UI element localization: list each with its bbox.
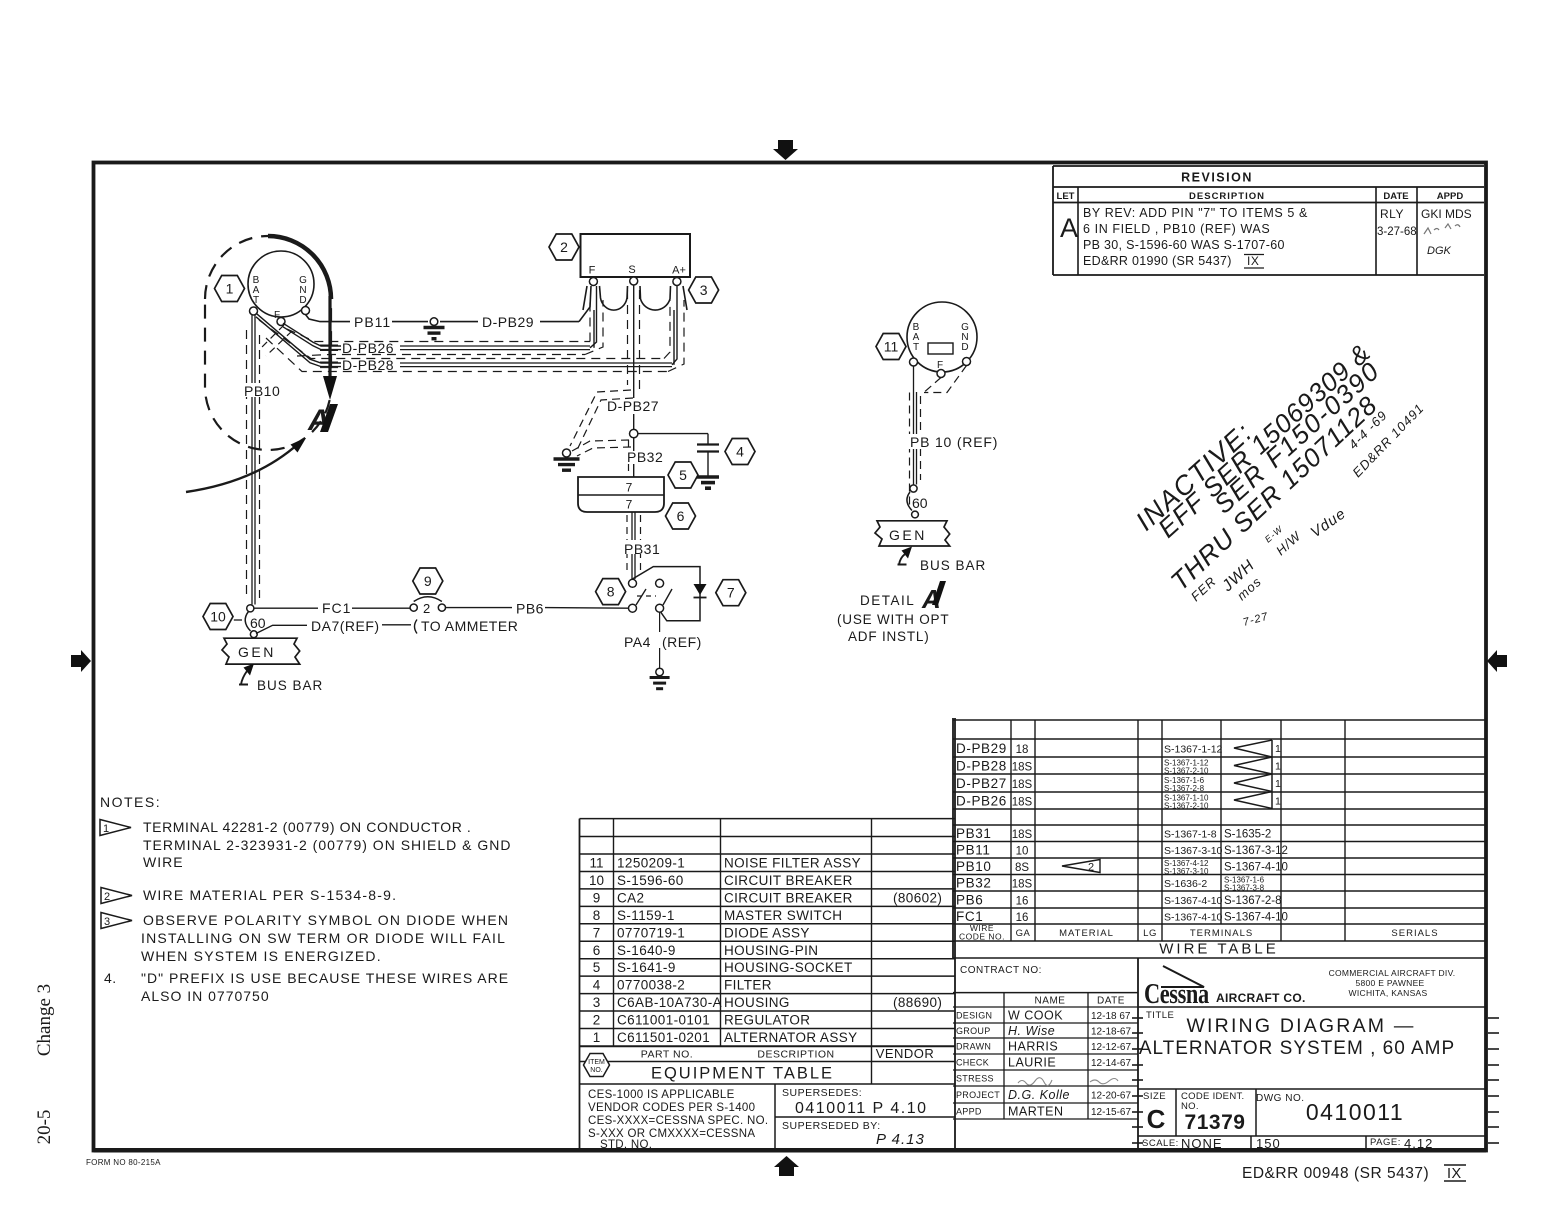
svg-text:4: 4 [736, 444, 744, 460]
svg-text:W COOK: W COOK [1008, 1009, 1063, 1023]
svg-text:HOUSING-SOCKET: HOUSING-SOCKET [724, 960, 853, 975]
svg-text:Cessna: Cessna [1144, 979, 1209, 1010]
svg-text:WIRE MATERIAL PER S-1534-8-9.: WIRE MATERIAL PER S-1534-8-9. [143, 887, 397, 903]
svg-text:12-15-67: 12-15-67 [1091, 1107, 1131, 1118]
svg-text:1: 1 [226, 281, 234, 297]
svg-text:7: 7 [593, 925, 601, 940]
svg-text:T: T [253, 295, 259, 306]
svg-text:VENDOR CODES PER S-1400: VENDOR CODES PER S-1400 [588, 1102, 755, 1114]
svg-text:ED&RR 01990 (SR 5437): ED&RR 01990 (SR 5437) [1083, 254, 1232, 268]
svg-text:MATERIAL: MATERIAL [1059, 928, 1114, 939]
svg-text:16: 16 [1016, 896, 1029, 908]
svg-text:S-1636-2: S-1636-2 [1164, 878, 1207, 890]
svg-text:60: 60 [912, 495, 928, 511]
svg-text:OBSERVE POLARITY SYMBOL ON DIO: OBSERVE POLARITY SYMBOL ON DIODE WHEN [143, 912, 509, 928]
svg-text:S-1641-9: S-1641-9 [617, 960, 676, 975]
svg-text:9: 9 [593, 890, 601, 905]
svg-text:FORM NO 80-215A: FORM NO 80-215A [86, 1158, 161, 1167]
svg-text:BUS BAR: BUS BAR [920, 558, 986, 573]
svg-text:NO.: NO. [590, 1067, 603, 1074]
svg-text:PB6: PB6 [956, 893, 983, 908]
svg-text:150: 150 [1256, 1136, 1281, 1151]
svg-text:S-1640-9: S-1640-9 [617, 943, 676, 958]
svg-text:PAGE:: PAGE: [1370, 1137, 1401, 1148]
svg-text:2: 2 [1088, 862, 1094, 874]
svg-text:S-1367-1-8: S-1367-1-8 [1164, 829, 1217, 841]
svg-text:PB32: PB32 [956, 876, 991, 891]
svg-text:S-1367-3-10: S-1367-3-10 [1164, 845, 1223, 857]
svg-text:1: 1 [103, 823, 109, 835]
svg-text:FC1: FC1 [956, 909, 983, 924]
svg-text:10: 10 [589, 873, 604, 888]
svg-text:GKI MDS: GKI MDS [1421, 207, 1472, 221]
svg-text:7: 7 [626, 498, 633, 512]
svg-text:DRAWN: DRAWN [956, 1042, 991, 1052]
svg-text:7: 7 [626, 481, 633, 495]
svg-text:1: 1 [1275, 743, 1281, 755]
svg-text:8: 8 [593, 908, 601, 923]
svg-text:0770719-1: 0770719-1 [617, 925, 685, 940]
svg-text:D: D [299, 295, 306, 306]
svg-text:0770038-2: 0770038-2 [617, 978, 685, 993]
svg-text:C611501-0201: C611501-0201 [617, 1030, 710, 1045]
svg-text:ADF INSTL): ADF INSTL) [848, 629, 930, 644]
svg-text:8S: 8S [1015, 862, 1029, 874]
svg-text:1: 1 [1275, 796, 1281, 808]
svg-text:EQUIPMENT TABLE: EQUIPMENT TABLE [651, 1065, 834, 1083]
svg-text:S-1367-3-8: S-1367-3-8 [1224, 884, 1265, 893]
svg-text:3-27-68: 3-27-68 [1377, 226, 1417, 238]
svg-text:CIRCUIT BREAKER: CIRCUIT BREAKER [724, 890, 853, 905]
svg-text:9: 9 [424, 573, 432, 589]
svg-text:SERIALS: SERIALS [1391, 928, 1438, 939]
svg-text:AIRCRAFT CO.: AIRCRAFT CO. [1216, 991, 1306, 1005]
svg-text:S-1367-2-8: S-1367-2-8 [1224, 895, 1282, 907]
svg-text:(80602): (80602) [893, 890, 942, 905]
svg-text:16: 16 [1016, 912, 1029, 924]
svg-text:11: 11 [589, 856, 603, 871]
svg-text:PB 30, S-1596-60 WAS S-1707: PB 30, S-1596-60 WAS S-1707-60 [1083, 238, 1285, 252]
svg-text:HOUSING-PIN: HOUSING-PIN [724, 943, 818, 958]
svg-text:DETAIL: DETAIL [860, 593, 915, 608]
svg-text:HOUSING: HOUSING [724, 995, 790, 1010]
svg-text:CA2: CA2 [617, 890, 644, 905]
svg-text:C: C [1147, 1104, 1166, 1134]
svg-text:WIRE TABLE: WIRE TABLE [1159, 941, 1278, 958]
svg-text:PA4: PA4 [624, 634, 651, 650]
svg-text:1: 1 [593, 1030, 601, 1045]
svg-text:ALSO IN 0770750: ALSO IN 0770750 [141, 988, 270, 1004]
svg-text:S-1159-1: S-1159-1 [617, 908, 675, 923]
svg-text:6: 6 [593, 943, 601, 958]
svg-text:18S: 18S [1012, 762, 1033, 774]
svg-text:4.: 4. [104, 970, 117, 986]
svg-text:REVISION: REVISION [1181, 171, 1253, 185]
svg-text:D-PB27: D-PB27 [956, 776, 1007, 791]
svg-text:10: 10 [210, 609, 226, 625]
svg-text:S-1367-2-8: S-1367-2-8 [1164, 784, 1205, 793]
svg-text:WHEN SYSTEM IS ENERGIZED.: WHEN SYSTEM IS ENERGIZED. [141, 948, 382, 964]
svg-text:PB11: PB11 [956, 843, 990, 858]
svg-text:DESCRIPTION: DESCRIPTION [757, 1049, 834, 1061]
svg-text:S-1367-3-12: S-1367-3-12 [1224, 845, 1288, 857]
svg-text:S-1367-2-10: S-1367-2-10 [1164, 802, 1209, 811]
svg-text:GA: GA [1016, 928, 1031, 939]
svg-text:ALTERNATOR SYSTEM , 60 AMP: ALTERNATOR SYSTEM , 60 AMP [1139, 1038, 1455, 1059]
svg-text:LET: LET [1057, 191, 1075, 202]
svg-text:TERMINAL 42281-2 (00779) ON CO: TERMINAL 42281-2 (00779) ON CONDUCTOR . [143, 819, 471, 835]
svg-text:P 4.13: P 4.13 [876, 1131, 925, 1148]
svg-text:60: 60 [250, 615, 266, 631]
svg-text:TITLE: TITLE [1146, 1010, 1174, 1021]
svg-text:(USE WITH OPT: (USE WITH OPT [837, 612, 949, 627]
svg-text:0410011: 0410011 [1306, 1099, 1404, 1125]
svg-text:DWG NO.: DWG NO. [1256, 1093, 1305, 1104]
svg-text:D-PB27: D-PB27 [607, 398, 659, 414]
svg-text:18S: 18S [1012, 829, 1033, 841]
svg-text:SIZE: SIZE [1143, 1091, 1166, 1102]
svg-text:BY REV: ADD PIN "7" TO ITEMS 5: BY REV: ADD PIN "7" TO ITEMS 5 & [1083, 206, 1308, 220]
svg-text:MARTEN: MARTEN [1008, 1105, 1064, 1119]
svg-text:DESIGN: DESIGN [956, 1011, 992, 1021]
svg-text:BUS BAR: BUS BAR [257, 678, 323, 693]
svg-text:DA7(REF): DA7(REF) [311, 618, 380, 634]
svg-text:WICHITA, KANSAS: WICHITA, KANSAS [1349, 988, 1428, 998]
svg-text:18S: 18S [1012, 797, 1033, 809]
svg-text:PROJECT: PROJECT [956, 1090, 1000, 1100]
svg-text:5: 5 [679, 467, 687, 483]
svg-text:D.G. Kolle: D.G. Kolle [1008, 1088, 1070, 1102]
svg-text:PB10: PB10 [244, 383, 280, 399]
svg-text:CES-XXXX=CESSNA SPEC. NO.: CES-XXXX=CESSNA SPEC. NO. [588, 1115, 768, 1127]
svg-text:T: T [913, 342, 919, 353]
svg-text:PB32: PB32 [627, 449, 663, 465]
svg-text:REGULATOR: REGULATOR [724, 1013, 810, 1028]
svg-text:DATE: DATE [1097, 996, 1125, 1007]
svg-text:11: 11 [884, 339, 899, 355]
svg-text:TO AMMETER: TO AMMETER [421, 618, 518, 634]
svg-text:RLY: RLY [1380, 207, 1404, 221]
svg-text:(88690): (88690) [893, 995, 942, 1010]
svg-text:INSTALLING ON SW TERM OR DIODE: INSTALLING ON SW TERM OR DIODE WILL FAIL [141, 930, 506, 946]
svg-text:PB11: PB11 [354, 314, 391, 330]
svg-text:5: 5 [593, 960, 601, 975]
svg-text:WIRING DIAGRAM —: WIRING DIAGRAM — [1186, 1015, 1415, 1037]
svg-text:SCALE:: SCALE: [1142, 1138, 1179, 1149]
svg-text:C611001-0101: C611001-0101 [617, 1013, 710, 1028]
svg-text:DESCRIPTION: DESCRIPTION [1189, 191, 1265, 202]
svg-text:12-18-67: 12-18-67 [1091, 1027, 1131, 1038]
svg-text:S-1367-3-10: S-1367-3-10 [1164, 867, 1209, 876]
svg-text:2: 2 [423, 601, 430, 616]
svg-text:S-1367-4-10: S-1367-4-10 [1164, 895, 1223, 907]
svg-text:10: 10 [1016, 846, 1029, 858]
svg-text:1250209-1: 1250209-1 [617, 856, 685, 871]
svg-text:1: 1 [1275, 761, 1281, 773]
svg-text:2: 2 [560, 239, 568, 255]
svg-text:4: 4 [593, 978, 601, 993]
svg-text:3: 3 [593, 995, 601, 1010]
svg-text:8: 8 [607, 584, 615, 600]
svg-text:APPD: APPD [956, 1107, 982, 1117]
svg-text:A+: A+ [672, 265, 686, 277]
svg-text:CES-1000 IS APPLICABLE: CES-1000 IS APPLICABLE [588, 1089, 735, 1101]
svg-text:D-PB29: D-PB29 [482, 314, 534, 330]
svg-text:7: 7 [727, 585, 735, 601]
svg-text:S-1367-4-10: S-1367-4-10 [1224, 862, 1288, 874]
svg-text:STD. NO.: STD. NO. [600, 1139, 652, 1151]
svg-text:D-PB28: D-PB28 [342, 357, 394, 373]
svg-text:ALTERNATOR ASSY: ALTERNATOR ASSY [724, 1030, 858, 1045]
svg-text:A: A [1060, 213, 1078, 243]
svg-text:2: 2 [104, 891, 110, 903]
svg-text:MASTER SWITCH: MASTER SWITCH [724, 908, 842, 923]
svg-text:D-PB28: D-PB28 [956, 759, 1007, 774]
svg-text:S-1635-2: S-1635-2 [1224, 829, 1271, 841]
svg-text:LAURIE: LAURIE [1008, 1056, 1056, 1070]
svg-text:S-1367-4-10: S-1367-4-10 [1224, 912, 1288, 924]
svg-text:DGK: DGK [1427, 245, 1452, 257]
svg-text:NAME: NAME [1035, 996, 1066, 1007]
svg-text:APPD: APPD [1437, 191, 1464, 202]
svg-text:IX: IX [1447, 1166, 1462, 1182]
svg-text:CIRCUIT BREAKER: CIRCUIT BREAKER [724, 873, 853, 888]
svg-text:S-1367-2-10: S-1367-2-10 [1164, 767, 1209, 776]
svg-text:SUPERSEDED BY:: SUPERSEDED BY: [782, 1120, 881, 1132]
svg-text:VENDOR: VENDOR [876, 1046, 935, 1061]
svg-text:IX: IX [1247, 254, 1259, 268]
svg-text:12-12-67: 12-12-67 [1091, 1042, 1131, 1053]
svg-text:C6AB-10A730-A: C6AB-10A730-A [617, 995, 722, 1010]
svg-text:S: S [628, 264, 635, 276]
svg-text:COMMERCIAL AIRCRAFT DIV.: COMMERCIAL AIRCRAFT DIV. [1329, 968, 1456, 978]
svg-text:CONTRACT NO:: CONTRACT NO: [960, 965, 1042, 976]
svg-text:CHECK: CHECK [956, 1058, 989, 1068]
svg-text:12-14-67: 12-14-67 [1091, 1058, 1131, 1069]
svg-text:S-1367-4-10: S-1367-4-10 [1164, 912, 1223, 924]
svg-text:TERMINAL 2-323931-2 (00779) ON: TERMINAL 2-323931-2 (00779) ON SHIELD & … [143, 837, 512, 853]
svg-text:D-PB26: D-PB26 [342, 340, 394, 356]
svg-text:HARRIS: HARRIS [1008, 1040, 1058, 1054]
svg-text:0410011 P 4.10: 0410011 P 4.10 [795, 1100, 928, 1117]
svg-text:2: 2 [593, 1013, 601, 1028]
svg-text:5800 E PAWNEE: 5800 E PAWNEE [1355, 978, 1424, 988]
svg-text:ITEM: ITEM [588, 1059, 605, 1066]
svg-text:DIODE ASSY: DIODE ASSY [724, 925, 810, 940]
svg-text:12-20-67: 12-20-67 [1091, 1091, 1131, 1102]
svg-text:STRESS: STRESS [956, 1074, 994, 1084]
svg-text:D: D [961, 342, 968, 353]
svg-text:4.12: 4.12 [1404, 1136, 1433, 1151]
svg-text:18S: 18S [1012, 879, 1033, 891]
svg-text:Change 3: Change 3 [34, 984, 55, 1056]
svg-text:18S: 18S [1012, 779, 1033, 791]
svg-text:LG: LG [1143, 928, 1157, 939]
svg-text:NONE: NONE [1181, 1136, 1223, 1151]
svg-text:PB6: PB6 [516, 601, 544, 617]
svg-text:SUPERSEDES:: SUPERSEDES: [782, 1087, 862, 1099]
svg-text:6: 6 [677, 508, 685, 524]
svg-text:F: F [589, 265, 596, 277]
svg-text:D-PB26: D-PB26 [956, 794, 1007, 809]
svg-text:12-18 67: 12-18 67 [1091, 1011, 1131, 1022]
svg-text:(REF): (REF) [662, 634, 702, 650]
svg-text:H. Wise: H. Wise [1008, 1024, 1055, 1038]
svg-text:"D" PREFIX IS USE BECAUSE THES: "D" PREFIX IS USE BECAUSE THESE WIRES AR… [141, 970, 509, 986]
svg-text:FILTER: FILTER [724, 978, 772, 993]
svg-text:ED&RR 00948 (SR 5437): ED&RR 00948 (SR 5437) [1242, 1165, 1429, 1182]
svg-text:PART NO.: PART NO. [641, 1049, 693, 1061]
svg-text:TERMINALS: TERMINALS [1190, 928, 1253, 939]
svg-text:WIRE: WIRE [143, 854, 184, 870]
svg-text:3: 3 [700, 282, 708, 298]
svg-text:S-1596-60: S-1596-60 [617, 873, 684, 888]
svg-text:D-PB29: D-PB29 [956, 741, 1007, 756]
svg-text:PB10: PB10 [956, 859, 991, 874]
svg-text:S-1367-1-12: S-1367-1-12 [1164, 744, 1223, 756]
svg-text:6 IN FIELD , PB10 (REF) WAS: 6 IN FIELD , PB10 (REF) WAS [1083, 222, 1270, 236]
svg-text:1: 1 [1275, 778, 1281, 790]
svg-text:GROUP: GROUP [956, 1026, 991, 1036]
svg-text:3: 3 [104, 916, 110, 928]
svg-text:NOTES:: NOTES: [100, 794, 161, 810]
svg-text:GEN: GEN [238, 644, 276, 660]
svg-text:PB31: PB31 [956, 826, 991, 841]
svg-text:18: 18 [1016, 744, 1029, 756]
svg-text:GEN: GEN [889, 527, 927, 543]
svg-text:71379: 71379 [1185, 1111, 1246, 1134]
svg-text:CODE NO.: CODE NO. [959, 932, 1005, 942]
svg-text:NOISE FILTER ASSY: NOISE FILTER ASSY [724, 856, 861, 871]
svg-text:PB31: PB31 [624, 541, 660, 557]
svg-text:20-5: 20-5 [34, 1110, 55, 1145]
svg-text:PB 10 (REF): PB 10 (REF) [910, 434, 998, 450]
svg-text:FC1: FC1 [322, 600, 351, 616]
svg-text:DATE: DATE [1383, 191, 1408, 202]
